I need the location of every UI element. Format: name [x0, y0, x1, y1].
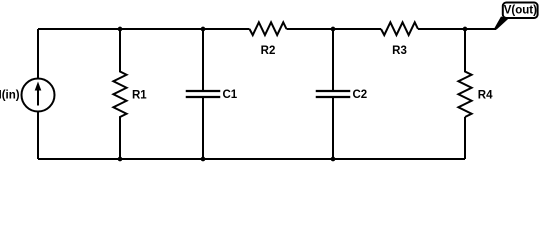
node: C1 bottom junction	[201, 157, 206, 162]
wire top rail: source to R2 left	[38, 28, 250, 30]
wire left branch upper: top rail to current source	[37, 29, 39, 79]
node: R1 bottom junction	[118, 157, 123, 162]
svg-text:I(in): I(in)	[0, 90, 20, 102]
current source I(in)	[0, 79, 55, 112]
resistor R4	[458, 29, 493, 117]
node: R4 top junction (V out node)	[463, 27, 468, 32]
capacitor C1	[186, 29, 238, 159]
wire bottom rail	[38, 158, 465, 160]
node: R1 top junction	[118, 27, 123, 32]
wire left branch lower: current source to bottom rail	[37, 112, 39, 160]
resistor R1	[113, 29, 147, 159]
svg-text:R4: R4	[478, 89, 493, 101]
svg-text:C1: C1	[223, 89, 238, 101]
resistor R3	[381, 22, 418, 57]
wire top rail: R3 right to V(out) tail	[418, 28, 496, 30]
wire R4 bottom lead to bottom rail corner	[464, 117, 466, 159]
capacitor C2	[316, 29, 367, 159]
svg-text:R1: R1	[132, 89, 147, 101]
node: C2 top junction	[331, 27, 336, 32]
label callout V(out)	[494, 3, 538, 30]
svg-text:C2: C2	[353, 89, 368, 101]
wire top rail: R2 right to R3 left	[287, 28, 382, 30]
svg-text:R2: R2	[261, 45, 276, 57]
resistor R2	[250, 22, 287, 57]
svg-text:V(out): V(out)	[504, 5, 537, 17]
node: C1 top junction	[201, 27, 206, 32]
svg-text:R3: R3	[392, 45, 407, 57]
node: C2 bottom junction	[331, 157, 336, 162]
